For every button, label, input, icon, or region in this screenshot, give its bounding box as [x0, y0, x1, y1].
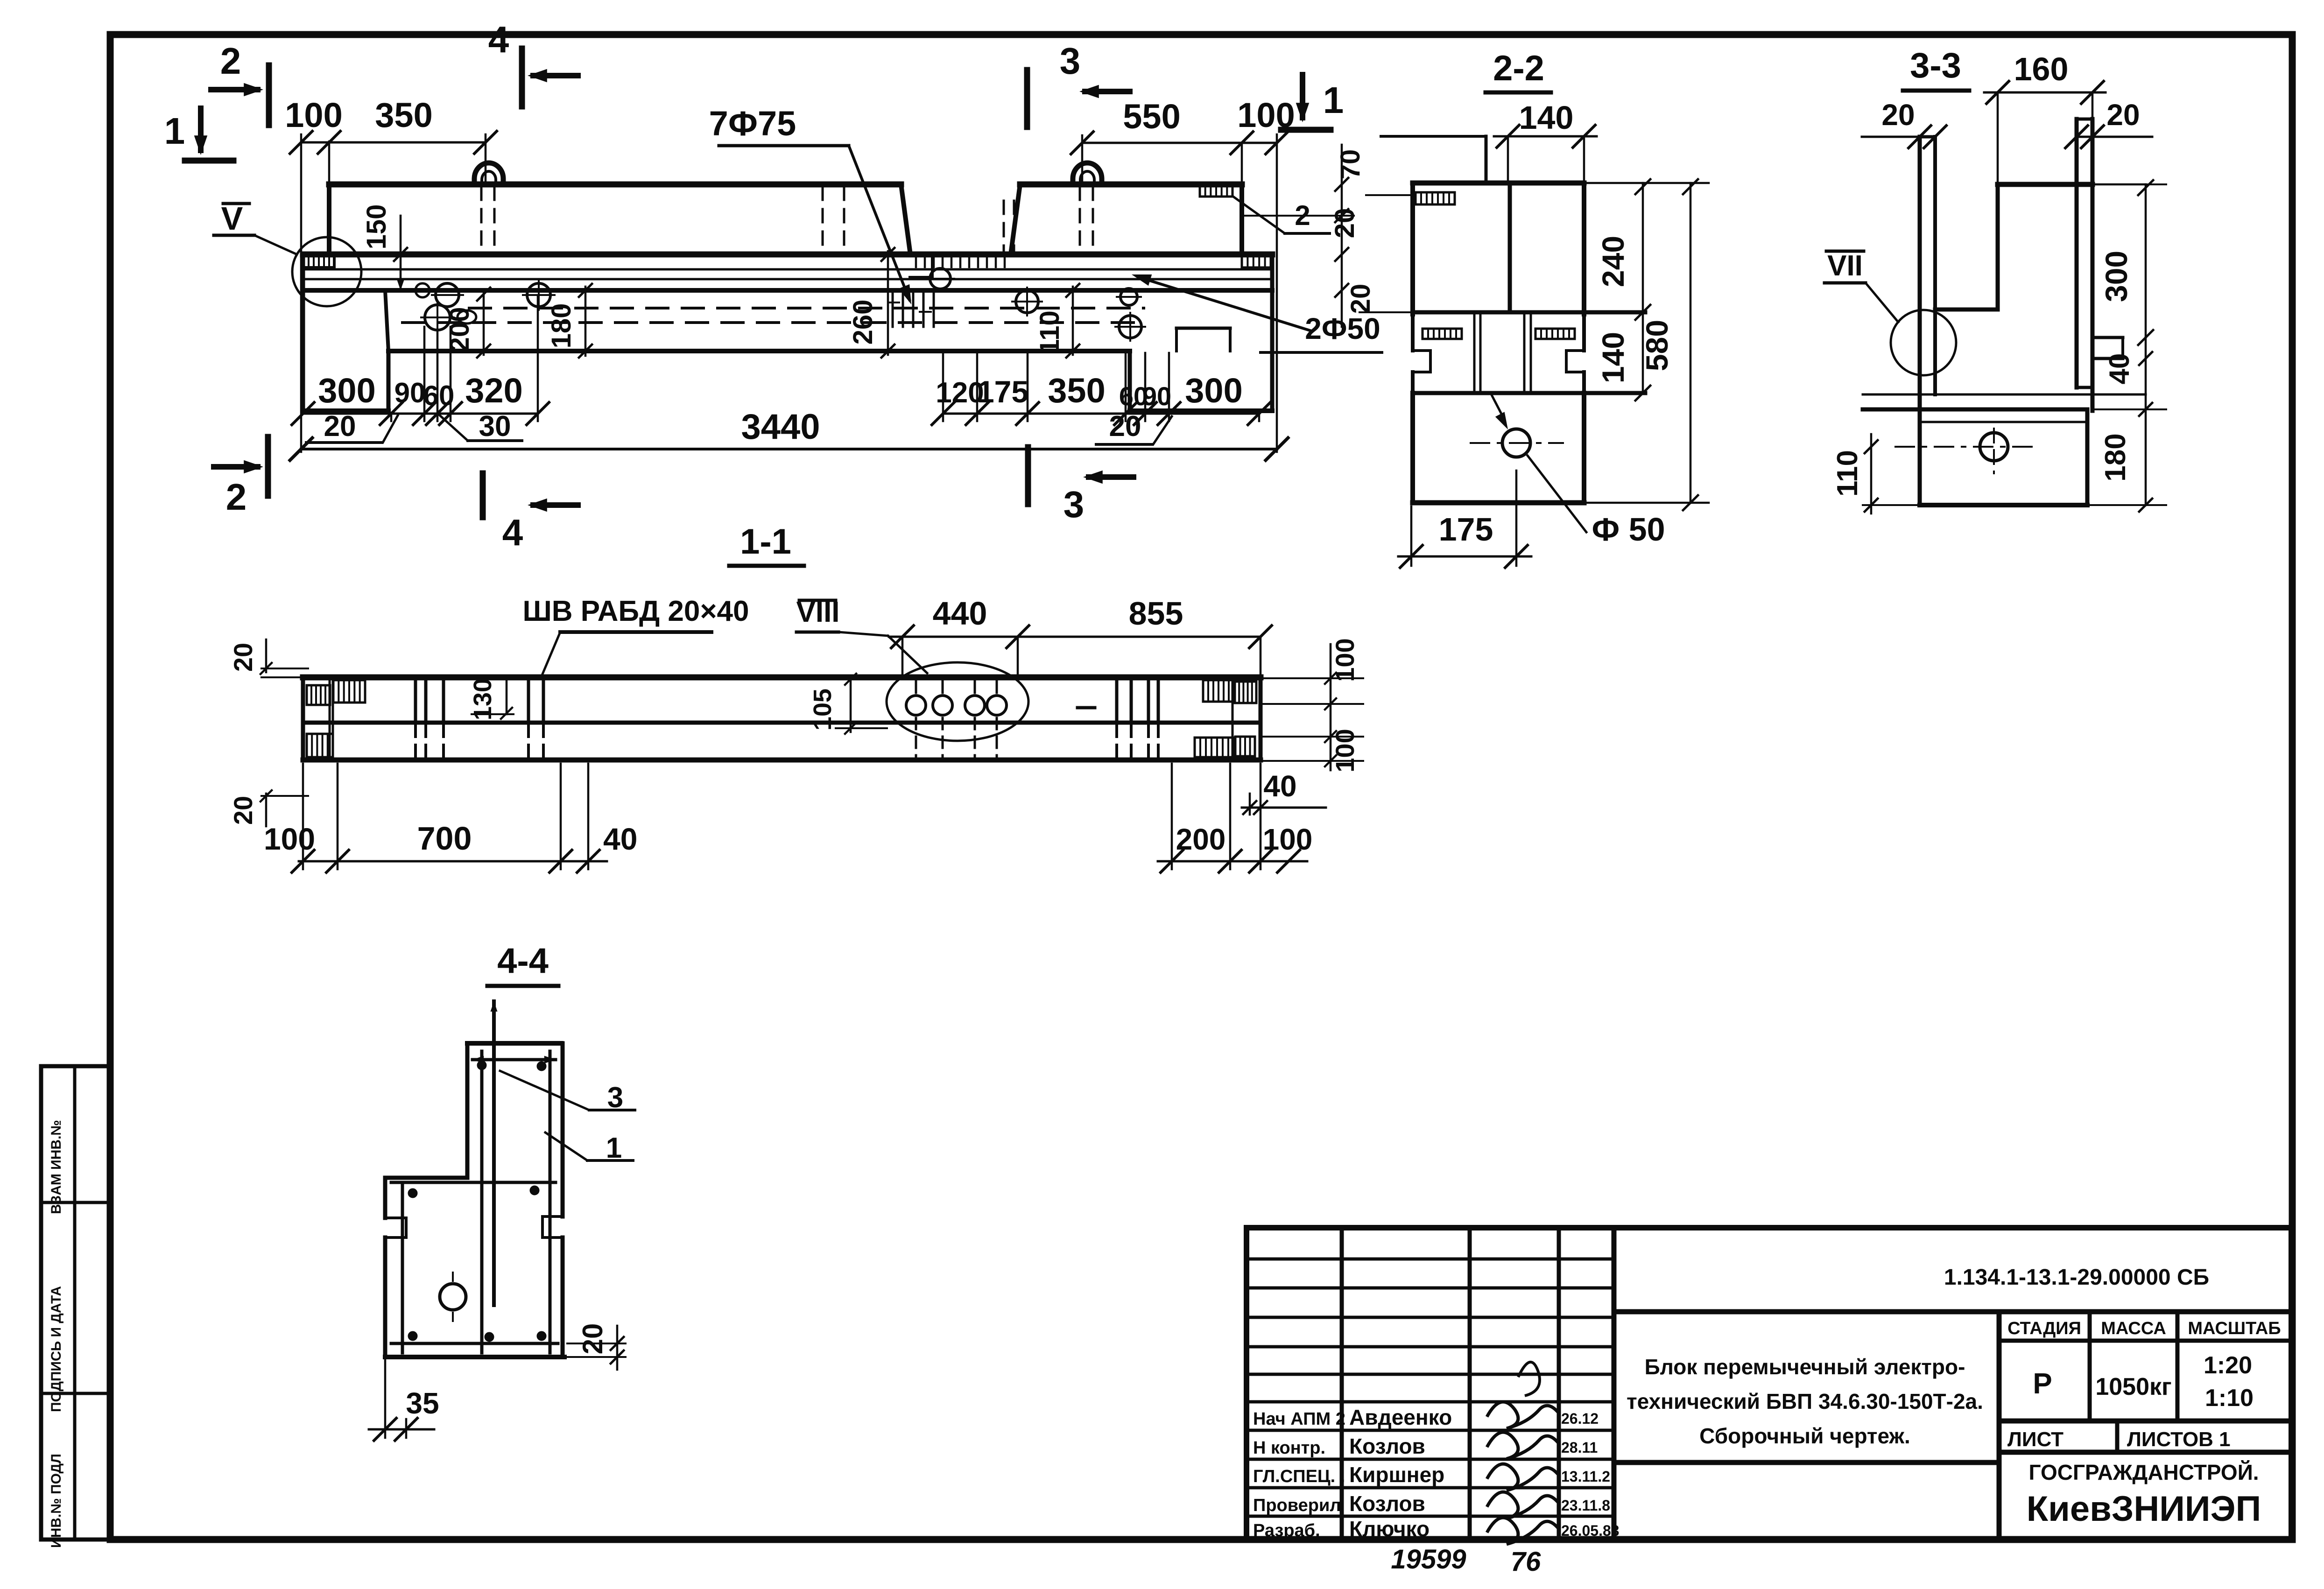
svg-text:100: 100: [1330, 729, 1359, 772]
lifting hook right: [1073, 163, 1102, 185]
svg-text:Блок перемычечный электро-: Блок перемычечный электро-: [1645, 1355, 1965, 1379]
svg-text:240: 240: [1596, 236, 1630, 287]
bearing pad under right slab end: [1200, 186, 1232, 197]
svg-text:40: 40: [1263, 769, 1296, 803]
svg-text:1050кг: 1050кг: [2095, 1373, 2171, 1400]
plan detail VIII oval with conduit circles: [887, 662, 1028, 741]
svg-text:440: 440: [933, 595, 987, 632]
mid joint channel stubs (7Ф75 target): [892, 293, 894, 327]
svg-text:100: 100: [1263, 823, 1313, 856]
title block doc number: [1614, 1309, 2291, 1315]
plan joint lines group B: [527, 679, 530, 721]
section 3-3 outline: [1920, 135, 1935, 139]
svg-text:350: 350: [375, 96, 432, 134]
svg-text:100: 100: [264, 822, 315, 856]
svg-text:20: 20: [1109, 410, 1141, 443]
rebar section dots: [477, 1061, 486, 1070]
svg-text:3-3: 3-3: [1910, 46, 1961, 85]
svg-text:90: 90: [1142, 381, 1171, 411]
svg-text:ГЛ.СПЕЦ. .: ГЛ.СПЕЦ. .: [1253, 1467, 1345, 1486]
svg-text:110: 110: [1035, 310, 1065, 354]
svg-text:ЛИСТОВ 1: ЛИСТОВ 1: [2127, 1428, 2231, 1451]
svg-text:технический БВП 34.6.30-150Т-2: технический БВП 34.6.30-150Т-2а.: [1627, 1389, 1983, 1413]
detail circle V: [292, 237, 361, 306]
svg-text:2: 2: [226, 476, 247, 518]
svg-text:300: 300: [1185, 371, 1242, 410]
svg-text:ГОСГРАЖДАНСТРОЙ.: ГОСГРАЖДАНСТРОЙ.: [2028, 1460, 2259, 1484]
svg-text:1: 1: [1323, 79, 1344, 121]
svg-text:1:20: 1:20: [2204, 1352, 2252, 1379]
svg-text:300: 300: [2099, 251, 2134, 302]
svg-text:160: 160: [2014, 51, 2069, 87]
svg-text:23.11.8: 23.11.8: [1561, 1497, 1610, 1514]
svg-text:VII: VII: [1827, 250, 1863, 282]
svg-text:ПОДПИСЬ И ДАТА: ПОДПИСЬ И ДАТА: [49, 1286, 64, 1412]
section 2-2 outline top tier: [1381, 135, 1486, 138]
svg-text:Разраб.: Разраб.: [1253, 1521, 1320, 1540]
svg-text:76: 76: [1511, 1547, 1541, 1577]
bottom dim row left: 300 90 60 320: [303, 413, 538, 415]
svg-text:20: 20: [577, 1323, 608, 1355]
svg-text:70: 70: [1335, 149, 1366, 180]
section 3-3 bottom block: [2085, 409, 2090, 505]
svg-text:19599: 19599: [1391, 1544, 1466, 1575]
svg-text:Ф 50: Ф 50: [1592, 511, 1665, 548]
svg-text:7Ф75: 7Ф75: [709, 104, 796, 143]
svg-text:МАСШТАБ: МАСШТАБ: [2188, 1319, 2281, 1338]
svg-text:3440: 3440: [741, 407, 820, 447]
svg-text:Козлов: Козлов: [1349, 1434, 1425, 1458]
svg-text:2-2: 2-2: [1493, 49, 1544, 88]
svg-text:175: 175: [1439, 511, 1493, 548]
svg-text:ВЗАМ ИНВ.№: ВЗАМ ИНВ.№: [49, 1120, 64, 1214]
hidden channel dashed centerlines: [469, 307, 1144, 309]
conduit hole circles left group: [416, 283, 430, 297]
plan bottom dims 100 700 40: [299, 860, 607, 863]
left margin stamp boxes: [41, 1066, 110, 1540]
main view: top slab right block: [1011, 184, 1020, 254]
top-left dim row 100 / 350: [301, 141, 486, 144]
svg-text:20: 20: [1345, 284, 1376, 314]
svg-text:26.12: 26.12: [1561, 1410, 1599, 1427]
svg-text:100: 100: [285, 96, 342, 134]
svg-text:105: 105: [809, 689, 837, 731]
svg-text:V: V: [221, 200, 243, 237]
svg-text:МАССА: МАССА: [2101, 1319, 2166, 1338]
section 4-4 rebar cage: [480, 1051, 484, 1353]
section 2-2 mid tier: [1413, 310, 1645, 315]
main view: left end block below band: [301, 254, 305, 411]
svg-text:300: 300: [318, 371, 375, 410]
svg-text:90: 90: [394, 377, 426, 408]
main view: right end block below band: [1128, 351, 1132, 411]
svg-text:20: 20: [228, 643, 258, 672]
svg-text:20: 20: [1881, 98, 1915, 132]
main view: floor band horizontals: [303, 252, 1272, 258]
bearing pad left end (detail V): [303, 254, 334, 267]
main view: top slab left block: [328, 141, 331, 184]
list / listov: [2115, 1421, 2120, 1452]
svg-text:40: 40: [603, 822, 637, 856]
svg-text:4: 4: [488, 19, 509, 60]
svg-text:200: 200: [444, 307, 475, 352]
svg-text:20: 20: [2106, 98, 2140, 132]
svg-text:Нач АПМ 2: Нач АПМ 2: [1253, 1409, 1345, 1429]
section 3-3 floor band: [1863, 394, 2146, 396]
bearing pad right end of band: [1242, 255, 1271, 267]
top-right dim row 550 / 100: [1082, 142, 1277, 144]
svg-text:150: 150: [361, 204, 392, 250]
svg-text:175: 175: [977, 374, 1028, 409]
plan right edge: [1259, 677, 1263, 760]
section 2-2 hole F50: [1502, 429, 1530, 457]
svg-text:28.11: 28.11: [1561, 1439, 1598, 1456]
svg-text:2: 2: [220, 40, 241, 82]
svg-text:Н контр.: Н контр.: [1253, 1438, 1325, 1458]
svg-text:580: 580: [1640, 320, 1674, 371]
label 2 with leader (bearing pad): [1232, 196, 1285, 233]
section 3-3 hole: [1980, 433, 2008, 461]
svg-text:1: 1: [164, 110, 185, 152]
svg-text:35: 35: [406, 1386, 439, 1420]
svg-text:180: 180: [2099, 433, 2132, 481]
main view: rib bottom edge: [388, 349, 1130, 353]
conduit hole circles right group: [930, 268, 951, 289]
plan left end bearing pads: [307, 685, 330, 705]
svg-text:30: 30: [479, 410, 511, 443]
signatures scribbles: [1487, 1402, 1558, 1428]
plan small dash mark: [1077, 706, 1095, 710]
section 2-2 label F50 leader: [1528, 456, 1586, 532]
svg-text:140: 140: [1519, 99, 1574, 136]
section 3-3 right stub 40: [2092, 336, 2123, 339]
section 4-4 hole: [440, 1284, 466, 1310]
section 4-4 outline: [467, 1041, 561, 1046]
svg-text:700: 700: [417, 820, 472, 857]
svg-text:320: 320: [465, 371, 522, 410]
bottom dim row right: 120 175 350 60 90 300: [943, 413, 1259, 415]
lifting hook left: [474, 163, 503, 185]
section 4-4 central dowel pin: [492, 1001, 496, 1305]
plan right end bearing pads: [1203, 680, 1234, 702]
svg-text:Киршнер: Киршнер: [1349, 1462, 1444, 1487]
svg-text:1-1: 1-1: [740, 522, 791, 562]
section 2-2 bottom tier: [1413, 391, 1645, 395]
svg-text:180: 180: [546, 303, 577, 349]
svg-text:350: 350: [1048, 371, 1105, 410]
title block signature table: [1247, 1258, 1614, 1261]
svg-text:СТАДИЯ: СТАДИЯ: [2007, 1319, 2081, 1338]
recess joint upstand: [910, 276, 932, 279]
svg-text:1:10: 1:10: [2205, 1385, 2254, 1412]
detail circle VII with label: [1891, 310, 1956, 375]
svg-text:Авдеенко: Авдеенко: [1349, 1405, 1452, 1429]
svg-text:Козлов: Козлов: [1349, 1491, 1425, 1516]
plan joint lines group C (right): [1115, 679, 1119, 721]
svg-text:200: 200: [1176, 823, 1226, 856]
svg-text:ЛИСТ: ЛИСТ: [2007, 1428, 2063, 1451]
svg-text:550: 550: [1123, 97, 1180, 136]
plan joint lines group A: [414, 679, 417, 721]
main elevation view: beam outline, left extension line: [300, 134, 303, 452]
svg-text:Ключко: Ключко: [1349, 1517, 1430, 1541]
stadia / massa / masshtab: [1999, 1339, 2291, 1343]
section 2-2 pad top-left: [1416, 192, 1455, 204]
svg-text:40: 40: [2104, 353, 2135, 385]
svg-text:3: 3: [1063, 484, 1085, 525]
drawing sheet frame: [110, 31, 2292, 38]
svg-text:ИНВ.№ ПОДЛ: ИНВ.№ ПОДЛ: [49, 1454, 64, 1548]
svg-text:140: 140: [1596, 332, 1630, 383]
svg-text:260: 260: [848, 300, 878, 345]
svg-text:26.05.83: 26.05.83: [1561, 1522, 1620, 1539]
svg-text:КиевЗНИИЭП: КиевЗНИИЭП: [2027, 1489, 2261, 1529]
svg-text:110: 110: [1831, 450, 1864, 497]
title block name cell: [1614, 1460, 1999, 1465]
svg-text:3: 3: [1060, 40, 1081, 82]
svg-text:1.134.1-13.1-29.00000 СБ: 1.134.1-13.1-29.00000 СБ: [1944, 1265, 2209, 1290]
svg-text:Сборочный чертеж.: Сборочный чертеж.: [1699, 1424, 1910, 1448]
section 2-2 left side extension lines: [1366, 194, 1415, 196]
svg-text:4: 4: [502, 512, 523, 553]
main view: recess surface hatch ticks: [915, 255, 917, 267]
svg-text:Р: Р: [2033, 1368, 2052, 1400]
svg-text:20: 20: [228, 796, 258, 825]
svg-text:20: 20: [324, 410, 356, 443]
title block outer: [1247, 1228, 2291, 1540]
svg-text:855: 855: [1129, 595, 1183, 632]
hidden slab edges dashed verticals: [480, 187, 483, 253]
overall dim 3440: [301, 448, 1277, 450]
svg-text:ШВ РАБД 20×40: ШВ РАБД 20×40: [522, 595, 749, 627]
svg-text:4-4: 4-4: [497, 941, 549, 981]
svg-text:100: 100: [1237, 96, 1295, 134]
plan outline horizontals: [303, 675, 1261, 681]
plan bottom dims right 200 100 40: [1158, 860, 1307, 863]
svg-text:13.11.2: 13.11.2: [1561, 1468, 1610, 1485]
svg-text:Проверил: Проверил: [1253, 1496, 1341, 1515]
plan left edge: [301, 677, 305, 760]
